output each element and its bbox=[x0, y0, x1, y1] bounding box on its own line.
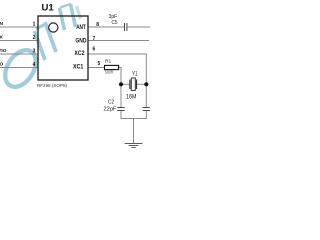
svg-text:RF298 (SOP8): RF298 (SOP8) bbox=[37, 83, 68, 88]
svg-text:8: 8 bbox=[96, 22, 99, 28]
svg-text:C2: C2 bbox=[108, 99, 114, 105]
svg-text:2: 2 bbox=[33, 35, 36, 41]
svg-text:1: 1 bbox=[33, 21, 36, 27]
svg-text:7: 7 bbox=[93, 36, 96, 42]
svg-text:O: O bbox=[0, 62, 4, 68]
svg-text:16M: 16M bbox=[126, 93, 136, 100]
svg-text:XC1: XC1 bbox=[73, 63, 84, 70]
svg-text:4: 4 bbox=[33, 62, 36, 68]
svg-text:U1: U1 bbox=[42, 2, 55, 13]
svg-text:XC2: XC2 bbox=[74, 50, 85, 57]
svg-text:R1: R1 bbox=[105, 58, 111, 64]
svg-text:ANT: ANT bbox=[76, 24, 86, 31]
svg-text:TIO: TIO bbox=[0, 48, 7, 54]
svg-text:5: 5 bbox=[98, 61, 101, 67]
svg-text:560R: 560R bbox=[105, 70, 113, 75]
svg-text:22pF: 22pF bbox=[104, 106, 117, 112]
svg-text:C5: C5 bbox=[112, 20, 118, 26]
svg-text:Y1: Y1 bbox=[132, 71, 138, 78]
svg-text:6: 6 bbox=[93, 47, 96, 53]
svg-text:3: 3 bbox=[33, 48, 36, 54]
svg-text:GND: GND bbox=[75, 37, 86, 44]
